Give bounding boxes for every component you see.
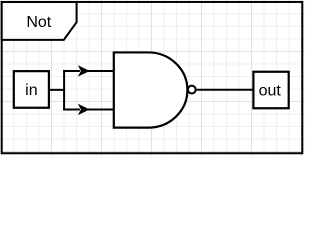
NAND gate input pin A [88,70,115,72]
svg-text:out: out [259,82,282,99]
NAND gate inversion bubble [188,86,196,94]
circuit frame "Not" border [2,2,303,153]
node out (output port box) [253,72,288,109]
NAND gate body [114,52,188,127]
svg-text:in: in [25,82,37,99]
node in (input port box) [14,71,49,108]
arrowhead on top branch wire [79,66,89,75]
wire: top branch to gate input A [63,70,80,72]
NAND gate input pin B [88,108,115,110]
svg-text:Not: Not [26,14,51,31]
wire: bottom branch to gate input B [63,108,80,110]
wire: node in to junction [49,89,64,91]
wire: junction vertical (branch split) [63,70,65,111]
wire: gate output to node out [197,89,254,91]
arrowhead on bottom branch wire [79,105,89,114]
circuit frame title tab [2,2,77,40]
